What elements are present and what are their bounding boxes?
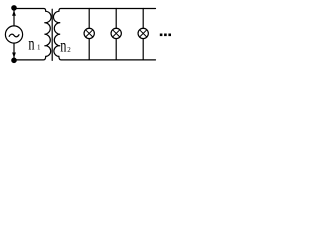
ac source G1: [5, 26, 22, 43]
wire lamp 1 drop bottom: [88, 39, 90, 60]
wire lamp 2 drop bottom: [115, 39, 117, 60]
wire lamp 3 drop bottom: [142, 39, 144, 60]
wire lamp 3 drop top: [142, 9, 144, 29]
arrow down on source bottom lead: [12, 53, 16, 58]
junction node bottom: [11, 58, 17, 64]
svg-text:n: n: [60, 36, 66, 56]
wire lamp 2 drop top: [115, 9, 117, 29]
ac source sine symbol: [9, 34, 19, 37]
lamp L2: [111, 28, 121, 38]
wire top rail right + transformer secondary winding n2: [53, 9, 155, 60]
wire top rail left + transformer primary winding n1: [14, 9, 51, 60]
svg-text:1: 1: [37, 43, 41, 51]
junction node top: [11, 5, 17, 11]
arrow up on source top lead: [12, 10, 16, 15]
lamp L1: [84, 28, 94, 38]
svg-text:2: 2: [67, 46, 71, 54]
lamp L3: [138, 28, 148, 38]
transformer core: [51, 9, 53, 60]
lamp L2 cross: [113, 30, 120, 37]
svg-text:n: n: [28, 34, 34, 54]
wire lamp 1 drop top: [88, 9, 90, 29]
lamp L3 cross: [140, 30, 147, 37]
lamp L1 cross: [86, 30, 93, 37]
ellipsis dot 3: [168, 34, 171, 37]
ellipsis dot 1: [160, 34, 163, 37]
wire source top lead: [13, 9, 15, 26]
wire source bottom lead: [13, 43, 15, 60]
ellipsis dot 2: [164, 34, 167, 37]
